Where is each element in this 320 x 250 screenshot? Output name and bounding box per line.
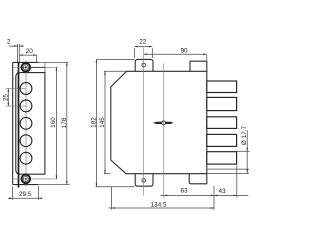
svg-text:63: 63 [180,188,188,195]
svg-text:90: 90 [180,48,188,55]
svg-text:43: 43 [218,188,226,195]
svg-text:29.5: 29.5 [19,191,32,198]
svg-text:22: 22 [139,38,147,45]
svg-text:160: 160 [50,117,57,128]
svg-text:145: 145 [99,117,106,128]
svg-text:25: 25 [3,94,10,102]
svg-text:182: 182 [91,117,98,128]
svg-text:134.5: 134.5 [151,202,167,209]
svg-text:2: 2 [7,38,11,45]
svg-text:Ø 17.7: Ø 17.7 [241,125,248,145]
svg-text:178: 178 [61,117,68,128]
svg-text:20: 20 [26,48,34,55]
